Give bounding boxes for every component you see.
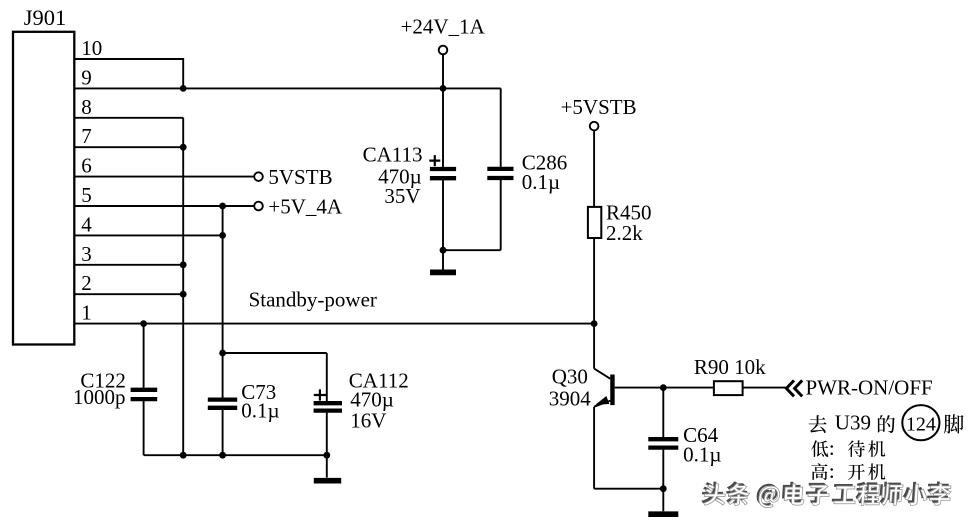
- svg-text:J901: J901: [24, 5, 67, 30]
- svg-text:2.2k: 2.2k: [606, 221, 643, 245]
- svg-text:0.1µ: 0.1µ: [683, 443, 721, 467]
- svg-text:6: 6: [81, 154, 92, 178]
- svg-text:10: 10: [81, 36, 102, 60]
- svg-text:9: 9: [81, 65, 92, 89]
- svg-text:5VSTB: 5VSTB: [268, 165, 332, 189]
- svg-text:1000p: 1000p: [73, 385, 126, 409]
- svg-text:R90 10k: R90 10k: [694, 355, 766, 379]
- svg-text:+24V_1A: +24V_1A: [401, 14, 486, 38]
- svg-text:3904: 3904: [549, 386, 592, 410]
- svg-text:8: 8: [81, 95, 92, 119]
- svg-text:U39: U39: [835, 411, 871, 435]
- svg-text:Q30: Q30: [552, 365, 588, 389]
- svg-text:16V: 16V: [350, 408, 386, 432]
- svg-text:CA113: CA113: [363, 142, 423, 166]
- svg-text:Standby-power: Standby-power: [249, 287, 377, 311]
- svg-text:124: 124: [906, 414, 936, 436]
- svg-text:0.1µ: 0.1µ: [241, 398, 279, 422]
- svg-text:2: 2: [81, 271, 92, 295]
- svg-text:3: 3: [81, 242, 92, 266]
- svg-text:+5V_4A: +5V_4A: [268, 195, 343, 219]
- svg-text:35V: 35V: [384, 184, 420, 208]
- svg-text:+5VSTB: +5VSTB: [561, 95, 637, 119]
- svg-text:PWR-ON/OFF: PWR-ON/OFF: [806, 376, 933, 400]
- svg-text:4: 4: [81, 212, 92, 236]
- svg-text:0.1µ: 0.1µ: [522, 170, 560, 194]
- svg-text:7: 7: [81, 124, 92, 148]
- svg-text:1: 1: [81, 301, 92, 325]
- svg-text:5: 5: [81, 183, 92, 207]
